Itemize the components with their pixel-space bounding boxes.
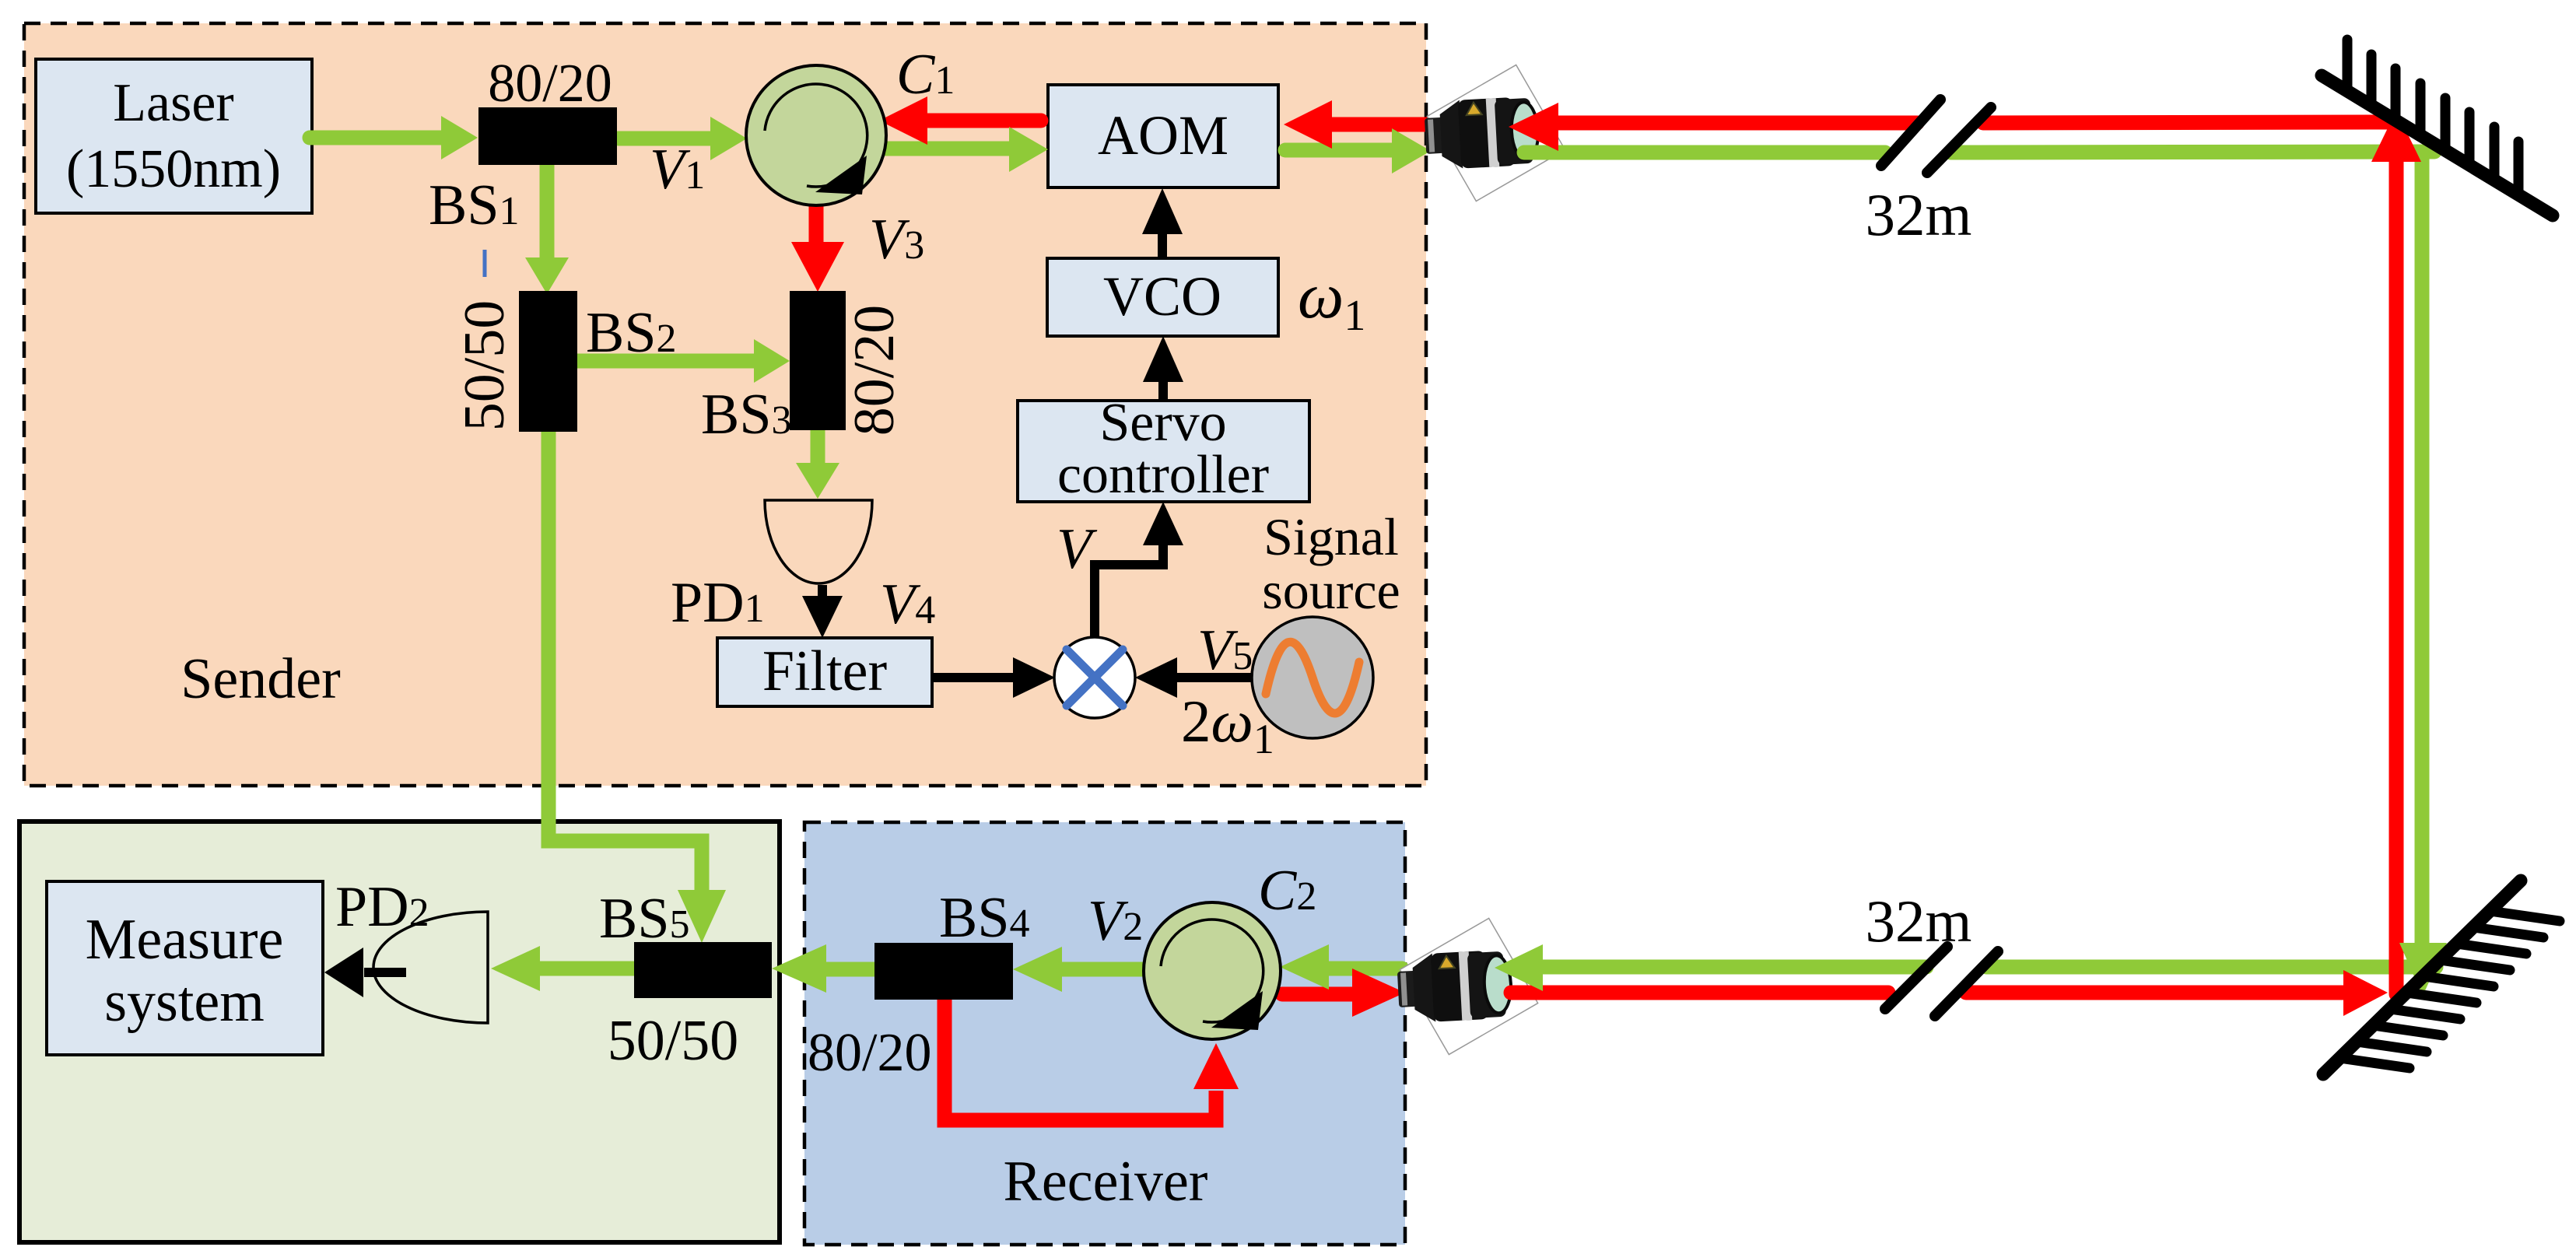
svg-text:80/20: 80/20 <box>808 1023 931 1083</box>
svg-text:Filter: Filter <box>762 639 887 703</box>
svg-text:Receiver: Receiver <box>1004 1150 1208 1214</box>
svg-text:V: V <box>1057 517 1098 581</box>
svg-text:Sender: Sender <box>180 647 341 711</box>
svg-text:AOM: AOM <box>1098 104 1228 166</box>
svg-text:Servo: Servo <box>1099 393 1226 453</box>
svg-text:50/50: 50/50 <box>453 300 517 432</box>
svg-text:Measure: Measure <box>86 908 284 972</box>
svg-text:Signal: Signal <box>1263 507 1399 566</box>
svg-text:32m: 32m <box>1866 888 1972 955</box>
svg-text:Laser: Laser <box>113 73 233 133</box>
svg-text:32m: 32m <box>1866 181 1972 248</box>
svg-text:80/20: 80/20 <box>843 305 906 436</box>
svg-text:VCO: VCO <box>1103 265 1221 328</box>
svg-text:(1550nm): (1550nm) <box>66 139 281 199</box>
svg-text:controller: controller <box>1057 445 1269 505</box>
svg-text:80/20: 80/20 <box>488 54 612 114</box>
svg-text:50/50: 50/50 <box>608 1009 739 1073</box>
svg-text:source: source <box>1262 561 1400 620</box>
svg-text:system: system <box>104 970 265 1034</box>
